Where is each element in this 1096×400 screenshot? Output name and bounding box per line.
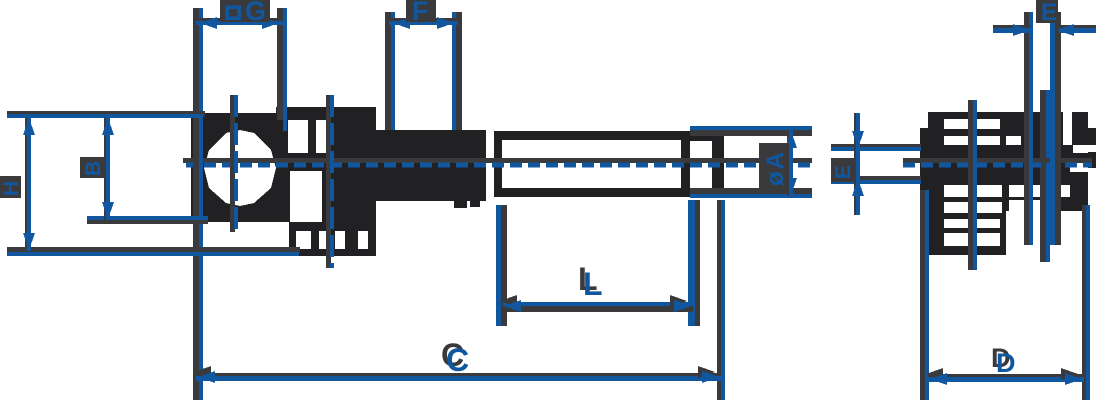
dimension oG right extension line [277,8,287,131]
dimension E left of end view: line and arrows [852,113,864,215]
svg-text:G: G [245,0,266,26]
svg-text:L: L [583,266,603,302]
thread block [375,130,486,208]
dimension C right extension line [717,200,725,400]
label L [578,261,603,302]
label C [441,337,469,378]
dimension D right extension line [1082,205,1090,400]
dimension L right extension line [688,200,700,326]
dimension B bottom extension line [87,216,208,224]
dimension oA line and arrows [785,130,797,196]
dimension D line and arrows [926,368,1084,385]
label square-G [220,0,270,26]
dimension B line and arrows [102,117,114,220]
dimension C line and arrows [194,366,721,383]
label E top-right [1036,0,1058,26]
label F [406,0,436,26]
dimension H line and arrows [23,117,35,251]
dimension E left of end view: top extension line [831,144,921,151]
eye vertical centerline [230,95,236,232]
svg-text:H: H [0,181,23,196]
svg-text:C: C [446,342,469,378]
end view inner vertical line (square hole edge) [1040,90,1050,262]
dimension L left extension line [496,205,507,326]
main horizontal centerline blue dashed [186,163,812,168]
label oA (rotated) [759,143,789,188]
dimension D left extension line [920,190,929,400]
boss block lower right [322,168,376,256]
end view vertical centerline [968,100,977,270]
main horizontal centerline gray [183,158,812,163]
dimension oG / C left extension line (shared vertical) [193,8,203,400]
end view mass right [1006,112,1096,211]
dimension E top-right: extension lines [1024,12,1033,245]
svg-text:F: F [412,0,429,26]
end view mass left [920,112,1006,255]
dimension E left of end view: bottom extension line [831,176,921,184]
label H (rotated) [0,176,23,198]
svg-text:E: E [1041,0,1057,26]
dimension E line and arrows (outside) [993,24,1096,36]
dimension F line and arrows [389,17,458,29]
dimension F left extension line [385,12,395,130]
svg-text:D: D [996,348,1016,378]
dimension L line and arrows [500,295,693,312]
boss block (clevis) upper [276,107,376,171]
dimension oA bottom extension line [690,188,812,198]
neck (right end step) [690,132,724,197]
dimension H top extension line [7,111,205,118]
dimension F right extension line [452,12,462,130]
dimension H bottom extension line [7,247,300,256]
svg-text:B: B [82,161,105,176]
bottom plate with slots [289,222,376,256]
svg-text:E: E [832,165,855,179]
dimension oG line and arrows [196,17,283,29]
svg-text:øA: øA [762,150,789,186]
eye block with round hole [191,113,290,222]
dimension oA top extension line [690,126,812,136]
shaft (cylinder outline) [494,131,690,197]
label D [991,343,1016,378]
end view horizontal centerline [903,158,1092,165]
label B (rotated) [80,157,106,178]
clevis hole vertical centerline x330 [326,95,332,268]
label E rotated (end view) [831,158,855,182]
